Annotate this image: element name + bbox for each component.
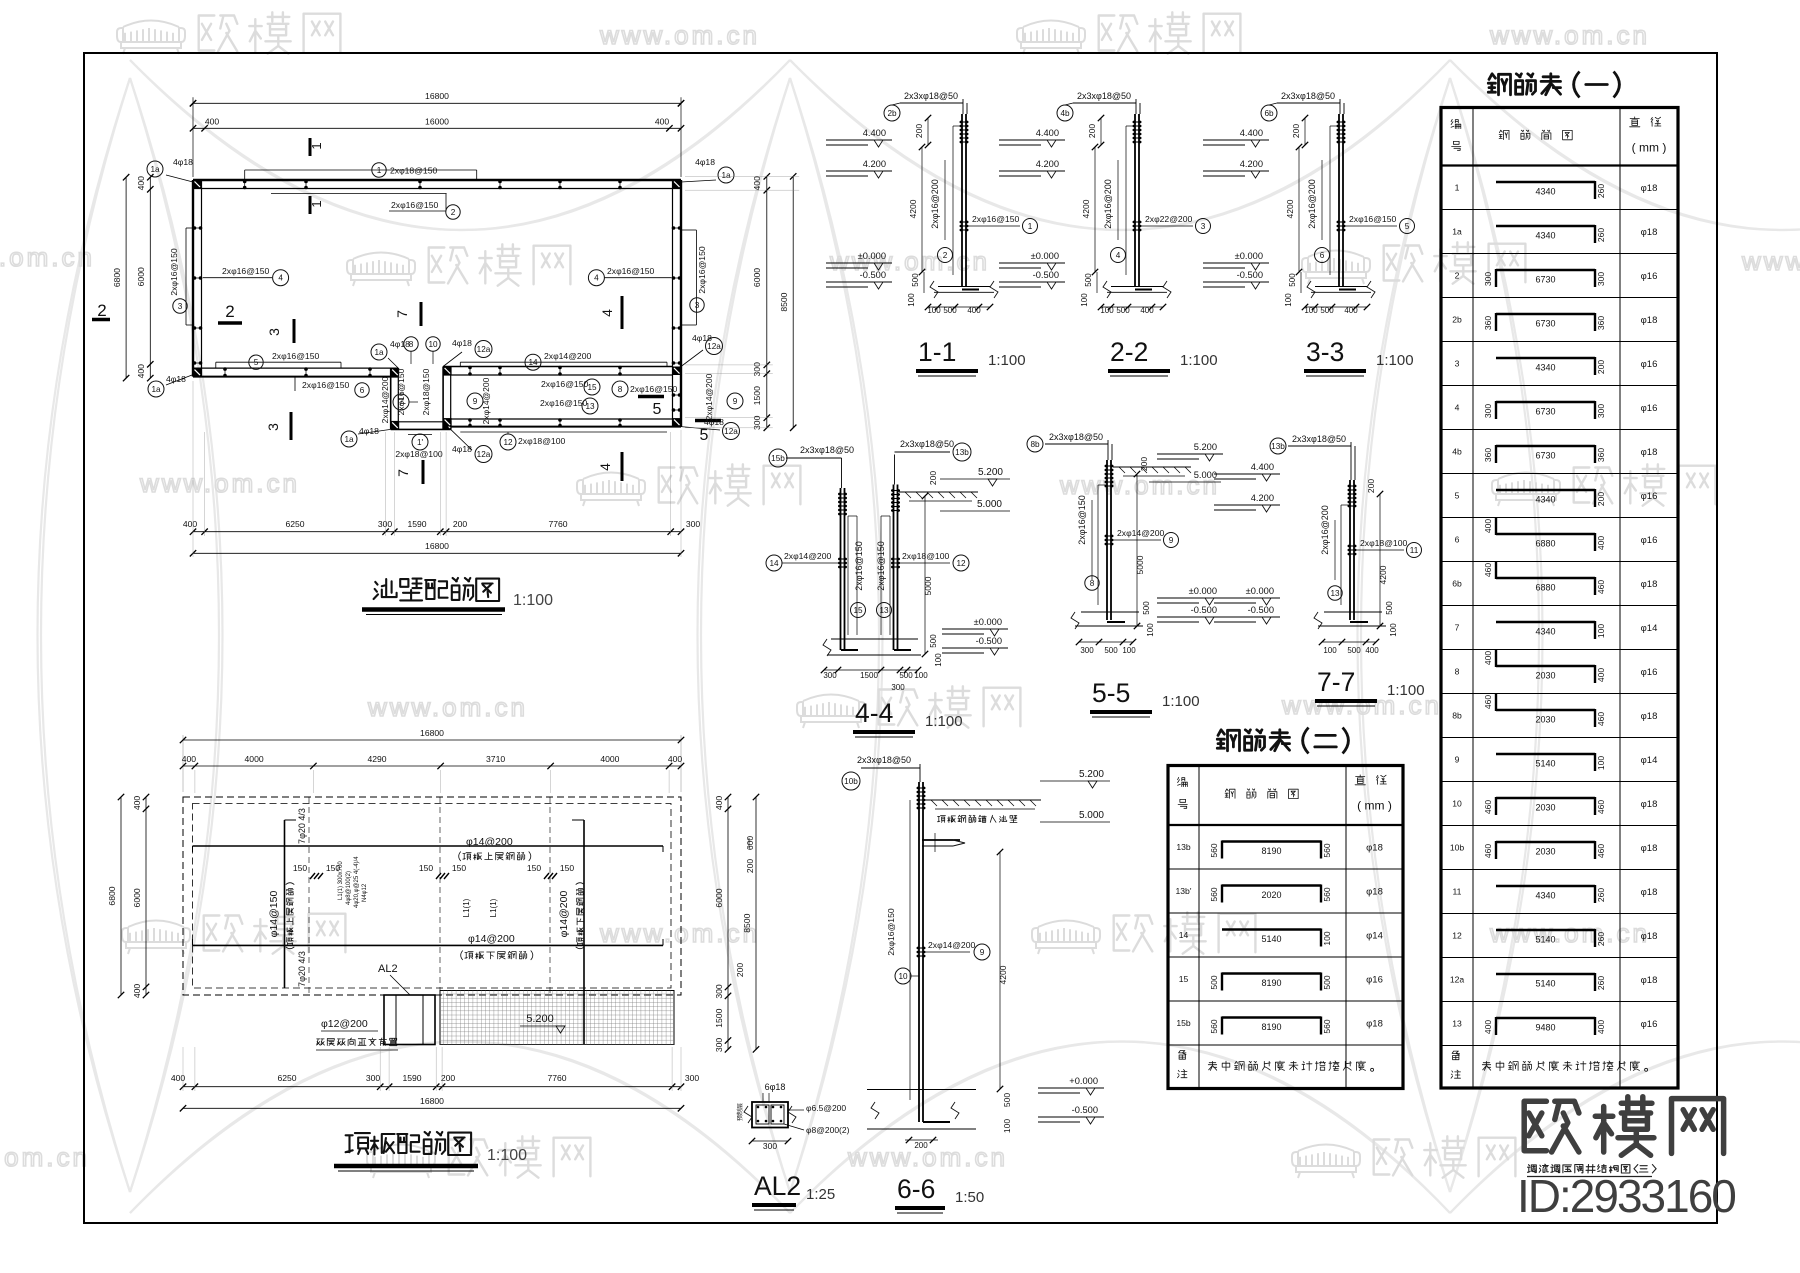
svg-text:2xφ16@150: 2xφ16@150 <box>391 200 438 210</box>
svg-text:φ16: φ16 <box>1641 271 1658 282</box>
svg-text:φ14: φ14 <box>1641 755 1658 766</box>
svg-text:2xφ18@100: 2xφ18@100 <box>518 436 565 446</box>
svg-text:AL2: AL2 <box>754 1171 801 1201</box>
svg-text:10b: 10b <box>1450 843 1465 853</box>
svg-text:3: 3 <box>266 328 282 336</box>
big id watermark <box>1524 1097 1723 1156</box>
svg-text:6000: 6000 <box>132 888 142 907</box>
svg-text:9: 9 <box>733 397 738 406</box>
svg-text:500: 500 <box>1320 306 1334 315</box>
plan1 section marks 7 <box>420 302 423 326</box>
plan2 rebar line bottom <box>193 944 664 946</box>
svg-text:10b: 10b <box>844 777 858 786</box>
svg-text:φ16: φ16 <box>1641 491 1658 502</box>
svg-text:100: 100 <box>1080 293 1089 307</box>
svg-text:6730: 6730 <box>1535 275 1555 285</box>
svg-text:2xφ14@200: 2xφ14@200 <box>928 940 975 950</box>
svg-text:φ18: φ18 <box>1641 931 1658 942</box>
svg-text:L1(1): L1(1) <box>489 898 498 917</box>
svg-text:2: 2 <box>225 302 234 321</box>
svg-text:16000: 16000 <box>425 117 449 127</box>
svg-text:150: 150 <box>326 863 340 873</box>
svg-text:200: 200 <box>1596 492 1606 506</box>
svg-text:400: 400 <box>655 117 670 127</box>
svg-text:400: 400 <box>132 796 142 811</box>
svg-text:360: 360 <box>1596 316 1606 330</box>
svg-text:2xφ18@150: 2xφ18@150 <box>390 166 437 176</box>
plan1 leader 6 <box>294 378 296 392</box>
svg-text:1a: 1a <box>1452 227 1462 237</box>
plan1 section marks 4 <box>621 296 624 329</box>
svg-text:AL2: AL2 <box>378 963 398 975</box>
svg-text:φ16: φ16 <box>1641 1019 1658 1030</box>
svg-text:400: 400 <box>1483 1020 1493 1034</box>
svg-text:7: 7 <box>394 310 410 318</box>
svg-text:460: 460 <box>1483 800 1493 814</box>
svg-text:12a: 12a <box>707 342 721 351</box>
svg-text:560: 560 <box>1209 1019 1219 1033</box>
svg-text:5: 5 <box>700 427 709 444</box>
svg-text:±0.000: ±0.000 <box>1189 586 1217 596</box>
svg-text:260: 260 <box>1596 888 1606 902</box>
svg-text:1: 1 <box>1455 183 1460 193</box>
svg-text:7: 7 <box>1455 623 1460 633</box>
plan1 strip bottom wall <box>443 426 681 428</box>
svg-text:16800: 16800 <box>420 728 444 738</box>
svg-text:460: 460 <box>1596 580 1606 594</box>
svg-text:φ16: φ16 <box>1366 975 1383 986</box>
svg-text:2xφ18@150: 2xφ18@150 <box>421 368 431 415</box>
svg-text:13: 13 <box>585 402 595 411</box>
svg-text:5.000: 5.000 <box>1079 810 1104 821</box>
plan2 bottom dims <box>183 1086 681 1088</box>
svg-text:260: 260 <box>1596 184 1606 198</box>
svg-text:4φ18: 4φ18 <box>166 374 186 384</box>
svg-text:200: 200 <box>735 963 745 977</box>
svg-text:4340: 4340 <box>1535 627 1555 637</box>
svg-text:8500: 8500 <box>779 292 789 311</box>
svg-text:1:100: 1:100 <box>1387 682 1425 699</box>
svg-text:100: 100 <box>1122 646 1136 655</box>
plan1 section mark 1 lower <box>309 196 312 214</box>
svg-text:8: 8 <box>618 385 623 394</box>
svg-text:www.om.cn: www.om.cn <box>599 20 760 50</box>
svg-text:2xφ16@200: 2xφ16@200 <box>930 179 940 229</box>
svg-text:100: 100 <box>934 653 943 667</box>
plan1 leader 2 <box>271 193 447 195</box>
svg-text:1:100: 1:100 <box>925 713 963 730</box>
plan2 outer dashed <box>183 797 681 995</box>
svg-text:460: 460 <box>1596 712 1606 726</box>
plan1 section marks 5 <box>638 395 664 399</box>
svg-text:15: 15 <box>853 606 863 615</box>
svg-text:600: 600 <box>745 836 755 850</box>
watermark logos <box>117 21 185 55</box>
svg-text:4200: 4200 <box>1378 565 1388 584</box>
svg-text:500: 500 <box>1288 273 1297 287</box>
svg-text:12: 12 <box>1452 931 1462 941</box>
svg-text:460: 460 <box>1483 844 1493 858</box>
svg-text:φ18: φ18 <box>1366 1019 1383 1030</box>
svg-text:2xφ14@200: 2xφ14@200 <box>784 551 831 561</box>
svg-text:13: 13 <box>1330 589 1340 598</box>
plan1 bottom dims <box>193 531 681 533</box>
svg-text:500: 500 <box>911 273 920 287</box>
svg-text:2x3xφ18@50: 2x3xφ18@50 <box>1077 91 1131 101</box>
svg-text:100: 100 <box>1146 623 1155 637</box>
svg-text:www.om.cn: www.om.cn <box>1489 918 1650 948</box>
svg-text:560: 560 <box>1322 1019 1332 1033</box>
svg-text:1590: 1590 <box>402 1073 421 1083</box>
svg-text:2x3xφ18@50: 2x3xφ18@50 <box>1049 432 1103 442</box>
svg-text:100: 100 <box>1596 624 1606 638</box>
plan1 top wall <box>193 179 681 181</box>
svg-text:2: 2 <box>943 251 948 260</box>
svg-text:300: 300 <box>823 671 837 680</box>
svg-text:4200: 4200 <box>1081 199 1091 218</box>
svg-text:200: 200 <box>745 859 755 873</box>
svg-text:1:100: 1:100 <box>513 592 553 609</box>
svg-text:2xφ16@150: 2xφ16@150 <box>607 266 654 276</box>
svg-text:1:100: 1:100 <box>988 352 1026 369</box>
svg-text:www.om.cn: www.om.cn <box>1489 20 1650 50</box>
plan2 right dims <box>727 797 729 1049</box>
svg-text:8190: 8190 <box>1261 1022 1281 1032</box>
svg-text:460: 460 <box>1483 695 1493 709</box>
svg-text:100: 100 <box>1596 756 1606 770</box>
svg-text:5140: 5140 <box>1535 935 1555 945</box>
svg-text:100: 100 <box>927 306 941 315</box>
svg-text:1:25: 1:25 <box>806 1186 835 1203</box>
svg-text:500: 500 <box>1104 646 1118 655</box>
svg-text:3-3: 3-3 <box>1306 337 1344 367</box>
svg-text:400: 400 <box>1365 646 1379 655</box>
plan1 step wall down <box>390 368 392 429</box>
svg-text:12: 12 <box>956 559 966 568</box>
plan2 top dims <box>182 735 184 792</box>
svg-text:300: 300 <box>714 984 724 999</box>
svg-text:4φ8@100(2): 4φ8@100(2) <box>346 871 352 905</box>
svg-text:2xφ16@150: 2xφ16@150 <box>169 248 179 295</box>
svg-text:1-1: 1-1 <box>918 337 956 367</box>
svg-text:5.200: 5.200 <box>1194 442 1217 452</box>
svg-text:1a: 1a <box>150 165 160 174</box>
plan1 corner squares <box>193 180 202 189</box>
svg-text:300: 300 <box>366 1073 381 1083</box>
svg-text:2xφ16@150: 2xφ16@150 <box>222 266 269 276</box>
svg-text:预制层: 预制层 <box>736 1103 744 1121</box>
svg-text:4φ20,φ@25 4(-4)/4: 4φ20,φ@25 4(-4)/4 <box>354 856 360 908</box>
svg-text:12a: 12a <box>477 450 491 459</box>
svg-text:6-6: 6-6 <box>897 1174 935 1204</box>
svg-text:5000: 5000 <box>923 576 933 595</box>
svg-text:φ16: φ16 <box>1641 359 1658 370</box>
svg-text:www.om.cn: www.om.cn <box>0 242 95 272</box>
plan1 bottom labels <box>341 431 357 447</box>
plan1 leader 4 left <box>203 277 272 279</box>
svg-text:4.200: 4.200 <box>1036 159 1059 169</box>
svg-text:4.400: 4.400 <box>1251 462 1274 472</box>
svg-text:300: 300 <box>763 1141 777 1151</box>
svg-text:1: 1 <box>377 166 382 175</box>
svg-text:±0.000: ±0.000 <box>1246 586 1274 596</box>
svg-text:2020: 2020 <box>1261 890 1281 900</box>
svg-text:100: 100 <box>1323 646 1337 655</box>
svg-text:100: 100 <box>1100 306 1114 315</box>
svg-text:8190: 8190 <box>1261 978 1281 988</box>
svg-text:15b: 15b <box>771 454 785 463</box>
svg-text:10: 10 <box>898 972 908 981</box>
svg-text:4.400: 4.400 <box>1036 128 1059 138</box>
svg-text:4340: 4340 <box>1535 495 1555 505</box>
svg-text:5: 5 <box>254 358 259 367</box>
svg-text:2xφ16@200: 2xφ16@200 <box>1307 179 1317 229</box>
svg-text:7φ20 4/3: 7φ20 4/3 <box>297 951 307 987</box>
svg-text:2xφ16@150: 2xφ16@150 <box>272 351 319 361</box>
svg-text:4.400: 4.400 <box>863 128 886 138</box>
svg-text:( mm ): ( mm ) <box>1632 141 1667 155</box>
svg-text:www.om.cn: www.om.cn <box>139 468 300 498</box>
svg-text:φ14@200: φ14@200 <box>468 933 515 945</box>
svg-text:16800: 16800 <box>425 541 449 551</box>
svg-text:200: 200 <box>1291 124 1301 138</box>
svg-text:N4φ12: N4φ12 <box>362 883 368 902</box>
svg-text:1:100: 1:100 <box>487 1147 527 1164</box>
svg-text:12a: 12a <box>1450 975 1465 985</box>
svg-text:φ14@200: φ14@200 <box>466 836 513 848</box>
plan2 vertical rebar line right <box>583 820 585 1044</box>
svg-text:300: 300 <box>891 683 905 692</box>
svg-text:10: 10 <box>1452 799 1462 809</box>
svg-text:±0.000: ±0.000 <box>974 617 1002 627</box>
svg-text:8500: 8500 <box>742 913 752 932</box>
svg-text:ID:2933160: ID:2933160 <box>1517 1170 1735 1222</box>
svg-text:12a: 12a <box>477 345 491 354</box>
svg-text:200: 200 <box>441 1073 456 1083</box>
svg-text:2xφ16@150: 2xφ16@150 <box>540 398 587 408</box>
svg-text:13b: 13b <box>1176 842 1191 852</box>
svg-text:2xφ16@150: 2xφ16@150 <box>697 246 707 293</box>
svg-text:-0.500: -0.500 <box>1248 605 1274 615</box>
svg-text:4b: 4b <box>1060 109 1070 118</box>
svg-text:φ14@200: φ14@200 <box>558 891 570 938</box>
svg-text:2030: 2030 <box>1535 715 1555 725</box>
section 4-4 <box>840 488 842 650</box>
svg-text:-0.500: -0.500 <box>1191 605 1217 615</box>
svg-text:±0.000: ±0.000 <box>1235 251 1263 261</box>
svg-text:4000: 4000 <box>600 754 619 764</box>
svg-text:3: 3 <box>265 423 281 431</box>
plan2 rebar line top <box>193 845 664 847</box>
svg-text:5: 5 <box>1455 491 1460 501</box>
svg-text:260: 260 <box>1596 932 1606 946</box>
svg-text:4340: 4340 <box>1535 891 1555 901</box>
svg-text:400: 400 <box>1596 1020 1606 1034</box>
svg-text:φ18: φ18 <box>1366 887 1383 898</box>
svg-text:5.200: 5.200 <box>526 1013 554 1025</box>
svg-text:φ18: φ18 <box>1641 975 1658 986</box>
svg-text:100: 100 <box>1284 293 1293 307</box>
svg-text:5.200: 5.200 <box>978 467 1003 478</box>
svg-text:1: 1 <box>309 142 324 149</box>
table 2 title <box>1303 728 1309 754</box>
svg-text:260: 260 <box>1596 228 1606 242</box>
svg-text:400: 400 <box>183 519 198 529</box>
svg-text:5140: 5140 <box>1535 759 1555 769</box>
svg-text:2xφ14@200: 2xφ14@200 <box>481 377 491 424</box>
svg-text:13b: 13b <box>955 448 969 457</box>
svg-text:8: 8 <box>1455 667 1460 677</box>
svg-text:2xφ16@150: 2xφ16@150 <box>396 368 406 415</box>
svg-text:1a: 1a <box>374 348 384 357</box>
svg-text:φ18: φ18 <box>1641 711 1658 722</box>
svg-text:-0.500: -0.500 <box>976 636 1002 646</box>
svg-text:4.200: 4.200 <box>1251 493 1274 503</box>
svg-text:6880: 6880 <box>1535 583 1555 593</box>
svg-text:4290: 4290 <box>367 754 386 764</box>
svg-text:200: 200 <box>914 124 924 138</box>
svg-text:1a: 1a <box>721 171 731 180</box>
svg-text:150: 150 <box>293 863 307 873</box>
svg-text:400: 400 <box>132 984 142 999</box>
svg-text:13: 13 <box>879 606 889 615</box>
AL2 detail <box>752 1102 788 1128</box>
svg-text:6: 6 <box>1320 251 1325 260</box>
svg-text:300: 300 <box>686 519 701 529</box>
svg-text:4.200: 4.200 <box>863 159 886 169</box>
svg-text:300: 300 <box>752 362 762 377</box>
svg-text:2xφ16@150: 2xφ16@150 <box>1077 495 1087 545</box>
svg-text:500: 500 <box>1347 646 1361 655</box>
svg-text:7: 7 <box>395 469 411 477</box>
plan1 left dims <box>149 177 151 378</box>
svg-text:φ14: φ14 <box>1366 931 1383 942</box>
svg-text:100: 100 <box>1389 623 1398 637</box>
svg-text:φ18: φ18 <box>1641 315 1658 326</box>
svg-text:400: 400 <box>668 754 683 764</box>
svg-text:4φ18: 4φ18 <box>173 157 193 167</box>
plan1 leader 1 <box>245 169 477 171</box>
svg-text:6800: 6800 <box>107 886 117 905</box>
svg-text:1': 1' <box>417 438 424 447</box>
svg-text:8: 8 <box>409 340 414 349</box>
svg-text:100: 100 <box>1304 306 1318 315</box>
svg-text:φ18: φ18 <box>1641 227 1658 238</box>
svg-text:2xφ16@150: 2xφ16@150 <box>886 908 896 955</box>
svg-text:200: 200 <box>928 471 938 485</box>
svg-text:5140: 5140 <box>1535 979 1555 989</box>
svg-text:4φ18: 4φ18 <box>359 426 379 436</box>
plan1 left rotated leader 3 <box>185 228 187 325</box>
plan2 left dims <box>145 797 147 995</box>
svg-text:7-7: 7-7 <box>1317 667 1355 697</box>
svg-text:1: 1 <box>1028 222 1033 231</box>
svg-text:5.000: 5.000 <box>977 499 1002 510</box>
svg-text:5.000: 5.000 <box>1194 470 1217 480</box>
svg-text:6730: 6730 <box>1535 319 1555 329</box>
svg-text:5-5: 5-5 <box>1092 678 1130 708</box>
svg-text:16800: 16800 <box>420 1096 444 1106</box>
svg-text:15: 15 <box>587 383 597 392</box>
svg-text:6730: 6730 <box>1535 451 1555 461</box>
svg-text:16800: 16800 <box>425 91 449 101</box>
svg-text:4.400: 4.400 <box>1240 128 1263 138</box>
plan1 right rotated leader 3 <box>695 230 697 325</box>
svg-text:2030: 2030 <box>1535 847 1555 857</box>
svg-text:3710: 3710 <box>486 754 505 764</box>
svg-text:φ16: φ16 <box>1641 403 1658 414</box>
svg-text:150: 150 <box>452 863 466 873</box>
plan1 leader 14 <box>460 361 667 363</box>
svg-text:2xφ16@150: 2xφ16@150 <box>876 541 886 591</box>
svg-text:8: 8 <box>1090 579 1095 588</box>
svg-text:560: 560 <box>1322 887 1332 901</box>
plan1 circles 7 9 in strip <box>393 394 409 410</box>
section 6-6 <box>918 782 920 1122</box>
svg-text:15b: 15b <box>1176 1018 1191 1028</box>
plan1 corner label 1a BL <box>148 381 164 397</box>
svg-text:4340: 4340 <box>1535 363 1555 373</box>
svg-text:φ18: φ18 <box>1641 579 1658 590</box>
svg-text:6φ18: 6φ18 <box>765 1082 786 1092</box>
plan1 left wall <box>192 180 194 377</box>
svg-text:10: 10 <box>428 340 438 349</box>
svg-text:400: 400 <box>205 117 220 127</box>
svg-text:4: 4 <box>599 309 615 317</box>
svg-text:4φ18: 4φ18 <box>452 444 472 454</box>
plan1 chamber right wall <box>442 367 444 430</box>
svg-text:2-2: 2-2 <box>1110 337 1148 367</box>
svg-text:2x3xφ18@50: 2x3xφ18@50 <box>1292 434 1346 444</box>
svg-text:L1(1): L1(1) <box>462 898 471 917</box>
plan2 title <box>346 1132 472 1155</box>
svg-text:6b: 6b <box>1264 109 1274 118</box>
svg-text:2x3xφ18@50: 2x3xφ18@50 <box>900 439 954 449</box>
svg-text:4φ18: 4φ18 <box>695 157 715 167</box>
svg-text:13b: 13b <box>1271 442 1285 451</box>
svg-text:2: 2 <box>451 208 456 217</box>
plan1 circles 8 10 above notch <box>404 337 418 351</box>
svg-text:500: 500 <box>1209 975 1219 989</box>
svg-text:6000: 6000 <box>752 268 762 287</box>
svg-text:2xφ16@200: 2xφ16@200 <box>1103 179 1113 229</box>
svg-text:1590: 1590 <box>407 519 426 529</box>
svg-text:500: 500 <box>1002 1093 1012 1107</box>
svg-text:200: 200 <box>1087 124 1097 138</box>
plan1 title <box>374 578 500 601</box>
plan1 wall rebar dots <box>243 180 247 184</box>
svg-text:5000: 5000 <box>1135 555 1145 574</box>
svg-text:-0.500: -0.500 <box>1033 270 1059 280</box>
svg-text:400: 400 <box>752 176 762 191</box>
svg-text:8b: 8b <box>1030 440 1040 449</box>
svg-text:6880: 6880 <box>1535 539 1555 549</box>
svg-text:1:50: 1:50 <box>955 1189 984 1206</box>
plan1 corner label 1a TL <box>147 161 163 177</box>
svg-text:360: 360 <box>1483 316 1493 330</box>
plan1 notch bottom wall <box>391 428 451 430</box>
svg-text:4: 4 <box>1116 251 1121 260</box>
svg-text:400: 400 <box>1596 668 1606 682</box>
svg-text:5140: 5140 <box>1261 934 1281 944</box>
svg-text:300: 300 <box>1483 272 1493 286</box>
svg-text:460: 460 <box>1596 800 1606 814</box>
svg-text:100: 100 <box>914 671 928 680</box>
svg-text:4: 4 <box>278 274 283 283</box>
svg-text:560: 560 <box>1209 887 1219 901</box>
svg-text:2xφ16@150: 2xφ16@150 <box>630 384 677 394</box>
svg-text:4φ18: 4φ18 <box>390 339 410 349</box>
